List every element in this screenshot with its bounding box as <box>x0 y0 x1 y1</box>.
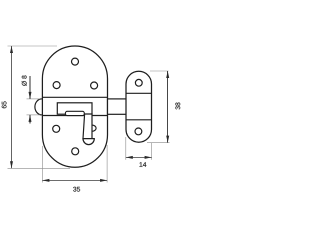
dim 14: label <box>139 162 146 167</box>
dim 38: arrow down <box>166 136 169 143</box>
keeper plate <box>126 71 152 142</box>
dim 35: extension line right <box>106 145 108 183</box>
dim Ø8: arrow down <box>29 92 32 99</box>
dim Ø8: arrow up <box>29 115 32 122</box>
dim 35: extension line left <box>41 146 43 183</box>
dim 65: label <box>2 101 7 108</box>
dim Ø8: label <box>22 75 27 85</box>
dim Ø8: upper leader <box>29 76 31 99</box>
dim 65: dimension line <box>11 46 13 168</box>
dim 65: extension line top <box>8 45 58 47</box>
dim 38: label <box>175 103 180 110</box>
dim 38: extension line bottom <box>147 142 170 144</box>
screw hole top <box>72 58 79 65</box>
main plate body <box>42 46 107 167</box>
dim Ø8: extension line top <box>27 98 41 100</box>
dim 38: dimension line <box>167 71 169 143</box>
screw hole upper-right <box>91 82 98 89</box>
screw hole bottom <box>72 148 79 155</box>
bolt rod end (left) <box>35 99 42 115</box>
dim 35: dimension line <box>42 179 107 181</box>
handle ear <box>92 125 96 131</box>
dim Ø8: lower leader <box>29 115 31 124</box>
dim 65: arrow down <box>10 161 13 168</box>
keeper hole bottom <box>135 128 142 135</box>
bolt tip (right) <box>108 99 127 114</box>
dim 14: arrow left <box>126 156 133 159</box>
dim 35: label <box>73 187 80 192</box>
dim 65: extension line bottom <box>8 167 71 169</box>
screw hole upper-left <box>53 82 60 89</box>
keeper band bottom line <box>126 119 152 121</box>
dim Ø8: extension line bottom <box>27 114 41 116</box>
dim 65: arrow up <box>10 46 13 53</box>
dim 35: arrow right <box>100 179 107 182</box>
keeper hole top <box>135 79 142 86</box>
dim 14: arrow right <box>145 156 152 159</box>
dim 35: arrow left <box>42 179 49 182</box>
bolt handle shaft <box>83 114 92 139</box>
keeper band top line <box>126 92 152 94</box>
handle foot cap <box>83 139 94 145</box>
dim 14: extension line left <box>125 137 127 160</box>
guide channel lower line <box>42 115 107 117</box>
slot rounded rect <box>65 111 84 115</box>
dim 38: arrow up <box>166 71 169 78</box>
guide channel upper line <box>42 96 107 98</box>
screw hole lower-left <box>53 125 60 132</box>
slide guide rect <box>57 103 92 114</box>
dim 38: extension line top <box>150 70 169 72</box>
dim 14: dimension line <box>126 156 152 158</box>
dim 14: extension line right <box>151 143 153 160</box>
